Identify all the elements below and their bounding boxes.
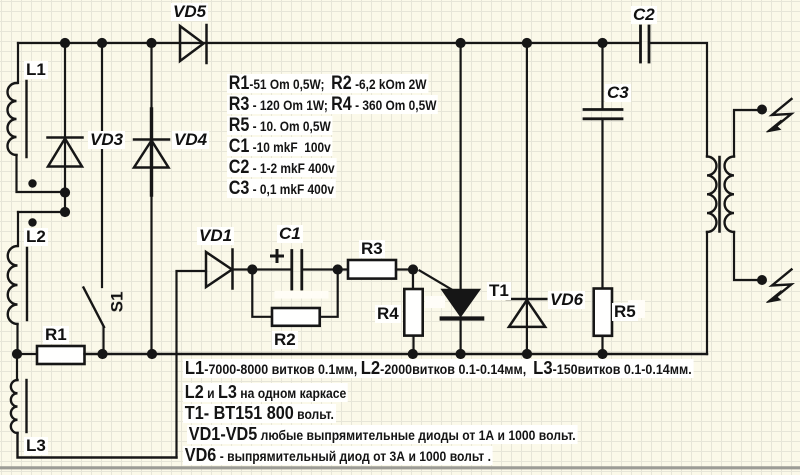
transformer core: [718, 157, 721, 232]
wire C3 to R5: [601, 120, 603, 289]
label C3: [605, 84, 631, 102]
core line of L3: [25, 380, 27, 432]
wire C3 branch top: [601, 43, 603, 108]
wire riser to VD1: [177, 271, 207, 458]
label L2: [24, 228, 48, 246]
spark gap arrow top: [767, 99, 792, 132]
inductor L1: [8, 83, 17, 155]
wire L3 top: [16, 354, 18, 380]
label R1: [43, 326, 69, 344]
node dot R4 bottom: [408, 349, 418, 359]
node dot VD3 top: [60, 38, 70, 48]
diode VD4: [134, 43, 169, 354]
transformer primary winding: [707, 157, 716, 233]
text note line 3: [183, 404, 336, 423]
text note line 4: [187, 425, 577, 444]
node dot S1 top: [97, 38, 107, 48]
node dot C3 top: [597, 38, 607, 48]
text values line 5: [227, 158, 336, 177]
node dot VD4 bottom: [147, 349, 157, 359]
label VD4: [172, 131, 209, 149]
diode VD3: [48, 43, 83, 193]
wire L2 bottom: [16, 324, 18, 354]
wire L3 bottom run: [18, 433, 177, 458]
wire R5 bottom leg: [601, 336, 603, 354]
switch S1: [84, 43, 105, 354]
resistor R2: [272, 308, 320, 326]
wire C1 to R3: [303, 268, 349, 270]
wire top rail: [18, 42, 640, 44]
resistor R1: [37, 346, 85, 364]
wire top-left drop to L1: [17, 43, 19, 83]
wire L2 top horizontal: [18, 211, 65, 213]
node dot VD1 out: [247, 264, 257, 274]
wire R2 right leg: [320, 270, 338, 317]
label VD1: [197, 227, 234, 245]
spark gap arrow bottom: [767, 270, 792, 303]
text note line 5: [183, 446, 493, 465]
label S1: [108, 290, 126, 315]
polarity dot L1: [28, 179, 36, 187]
capacitor C1: [272, 251, 302, 290]
resistor R5: [594, 289, 612, 336]
node dot C1 out: [333, 264, 343, 274]
transformer secondary winding: [725, 157, 734, 233]
wire L1 bottom to node: [17, 155, 66, 192]
white patch near gate: [425, 296, 445, 308]
node dot S1 bottom: [97, 349, 107, 359]
bottom photo edge band: [0, 466, 800, 469]
wire R2 left leg: [252, 270, 272, 317]
white patch under C1: [275, 291, 329, 299]
wire secondary top terminal: [734, 110, 762, 157]
thyristor T1: [442, 43, 483, 354]
node dot output top: [757, 105, 767, 115]
wire to R1: [17, 353, 37, 355]
text values line 1: [227, 74, 428, 93]
text values line 2: [227, 95, 438, 114]
wire bottom rail: [85, 353, 708, 355]
polarity dot L2: [28, 218, 36, 226]
inductor L3: [11, 380, 18, 433]
wire R3 to node: [396, 268, 413, 270]
node junction dot L2 top: [60, 207, 70, 217]
label R5: [612, 303, 638, 321]
inductor L2: [8, 246, 18, 324]
diode VD1: [206, 250, 233, 289]
node dot R5 bottom: [597, 349, 607, 359]
resistor R4: [404, 289, 422, 336]
wire junction link: [64, 193, 66, 213]
wire gate of T1: [420, 271, 453, 291]
core line of L2: [26, 248, 28, 320]
label L1: [24, 61, 48, 79]
label VD3: [88, 131, 125, 149]
diode VD6: [507, 43, 547, 354]
node dot output bottom: [757, 275, 767, 285]
label VD6: [548, 291, 585, 309]
node dot T1 bottom: [456, 349, 466, 359]
capacitor C2: [641, 26, 650, 62]
label R2: [272, 331, 298, 349]
node dot VD6 bottom: [522, 349, 532, 359]
wire R4 bottom leg: [412, 336, 414, 354]
text note line 2: [183, 383, 348, 402]
text values line 3: [227, 116, 332, 135]
capacitor C3: [584, 110, 622, 119]
wire secondary bottom terminal: [734, 232, 762, 280]
label R4: [375, 305, 401, 323]
label VD5: [171, 3, 208, 21]
core line of L1: [25, 81, 27, 157]
node junction dot L1/VD3: [60, 187, 70, 197]
node dot VD4 top: [146, 38, 156, 48]
label R3: [359, 240, 385, 258]
wire VD1 to C1: [233, 268, 292, 270]
resistor R3: [348, 260, 396, 279]
label L3: [24, 437, 48, 455]
white patch near R5: [628, 300, 645, 318]
node dot VD6 top: [522, 38, 532, 48]
wire primary bottom to rail: [706, 232, 708, 354]
node dot R3/R4: [408, 264, 418, 274]
wire top rail right of C2: [649, 43, 707, 157]
node dot T1 top: [456, 38, 466, 48]
label C2: [631, 6, 657, 24]
label C1: [277, 225, 303, 243]
text values line 4: [227, 137, 332, 156]
label T1: [487, 282, 511, 300]
wire R4 top leg: [412, 270, 414, 290]
text note line 1: [183, 359, 694, 378]
diode VD5: [180, 25, 207, 63]
node dot left rail: [12, 349, 22, 359]
text values line 6: [227, 179, 336, 198]
wire L2 drop: [17, 212, 19, 246]
